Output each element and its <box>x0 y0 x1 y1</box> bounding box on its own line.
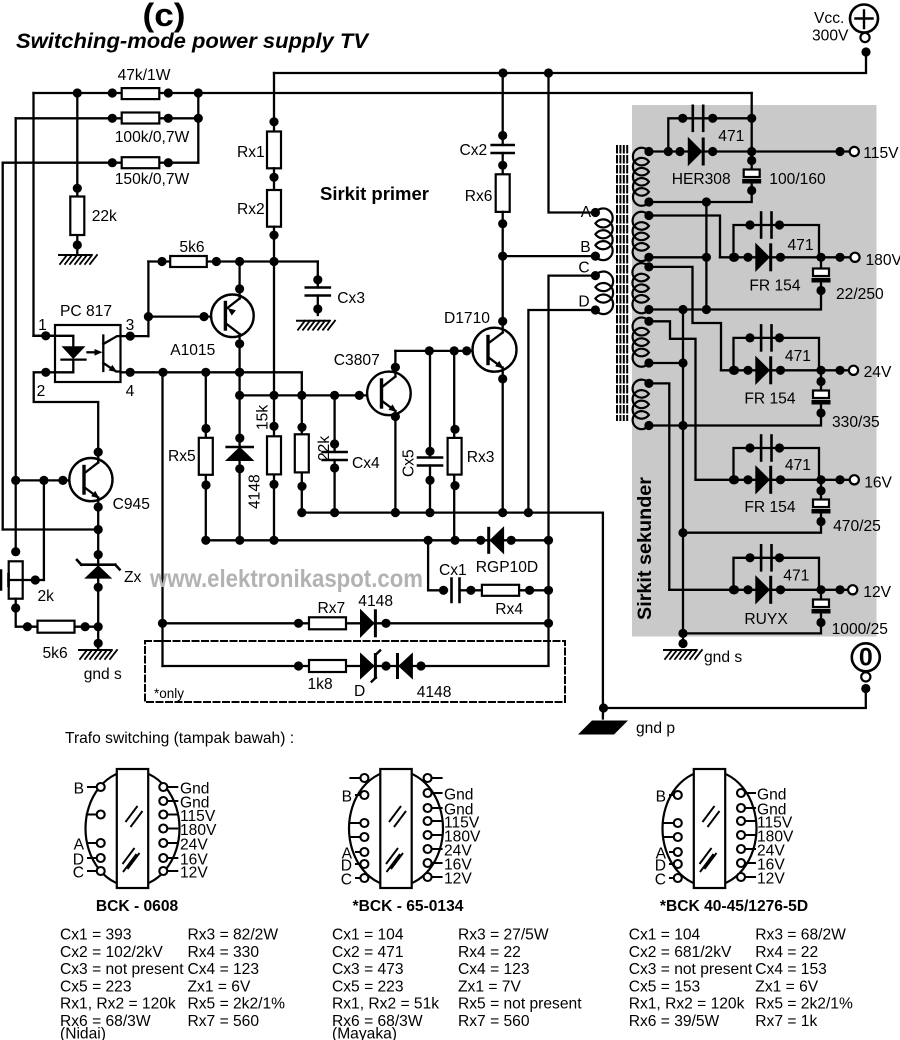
svg-text:B: B <box>74 780 84 797</box>
resistor 150k/0,7W <box>122 157 160 168</box>
capacitor 100/160 <box>744 170 760 178</box>
wire 115V diode row <box>649 150 850 152</box>
diode FR 154 (180V) <box>756 244 770 271</box>
svg-text:Zx: Zx <box>124 569 142 586</box>
svg-text:12V: 12V <box>863 584 891 601</box>
resistor 22k (lower) <box>301 395 303 512</box>
svg-text:Rx7 = 560: Rx7 = 560 <box>188 1013 260 1030</box>
secondary side gray panel <box>632 105 877 637</box>
svg-text:5k6: 5k6 <box>179 239 204 256</box>
capacitor Cx2 <box>502 73 504 174</box>
wire 16V feed from winding <box>649 321 696 480</box>
node W3 bottom row dots <box>644 305 653 314</box>
PC817 internal LED <box>55 336 73 347</box>
svg-text:12V: 12V <box>180 864 208 881</box>
svg-text:24V: 24V <box>864 364 892 381</box>
transformer pinout *BCK 40-45/1276-5D <box>663 769 757 888</box>
svg-text:Cx1 = 104: Cx1 = 104 <box>332 927 404 944</box>
wire ground bus x=683 <box>682 310 684 647</box>
svg-text:FR 154: FR 154 <box>744 391 795 408</box>
svg-text:PC 817: PC 817 <box>60 303 112 320</box>
svg-text:115V: 115V <box>863 145 899 162</box>
svg-text:Rx4 = 22: Rx4 = 22 <box>755 944 818 961</box>
capacitor Cx3 <box>317 262 319 316</box>
svg-text:12V: 12V <box>757 870 785 887</box>
wire 12V feed from winding <box>649 383 669 589</box>
svg-text:470/25: 470/25 <box>833 518 881 535</box>
svg-text:Rx5 = 2k2/1%: Rx5 = 2k2/1% <box>188 996 286 1013</box>
wire 12V diode row <box>669 589 849 591</box>
svg-text:Rx3 = 82/2W: Rx3 = 82/2W <box>188 927 279 944</box>
PC817 pin 3 wire <box>121 335 149 337</box>
svg-text:12V: 12V <box>444 870 472 887</box>
wire 150k row y=163 <box>3 162 199 164</box>
svg-text:(Nidai): (Nidai) <box>60 1026 106 1040</box>
svg-text:gnd s: gnd s <box>704 649 742 666</box>
node W5 bottom row dots <box>644 421 653 430</box>
ground below 22k <box>59 254 91 256</box>
wire return bus x=706.4 <box>705 202 707 310</box>
svg-text:Rx3 = 27/5W: Rx3 = 27/5W <box>458 927 549 944</box>
svg-text:Cx3: Cx3 <box>337 290 365 307</box>
svg-text:Cx5: Cx5 <box>401 449 418 477</box>
wire C3807 collector to D1710 base row <box>394 351 396 377</box>
svg-text:gnd s: gnd s <box>84 666 122 683</box>
resistor Rx1 <box>273 73 275 132</box>
resistor Rx7 <box>309 617 346 629</box>
resistor 2k <box>11 547 20 556</box>
resistor Rx3 <box>453 351 455 540</box>
svg-text:22k: 22k <box>316 436 333 461</box>
svg-text:471: 471 <box>785 457 811 474</box>
wire row B y=395.4 <box>240 394 382 396</box>
svg-text:Rx1: Rx1 <box>237 144 265 161</box>
svg-text:*BCK 40-45/1276-5D: *BCK 40-45/1276-5D <box>660 898 808 915</box>
svg-text:Cx5 = 223: Cx5 = 223 <box>60 978 132 995</box>
capacitor 471 (180V) <box>734 225 820 257</box>
PC817 light arrow <box>88 351 98 353</box>
PC817 pin 4 wire / row A y=372.3 <box>121 372 302 395</box>
transformer secondary winding W4 <box>633 318 649 367</box>
svg-text:Rx2: Rx2 <box>237 201 265 218</box>
terminal 180V <box>850 253 859 262</box>
svg-text:Zx1 = 6V: Zx1 = 6V <box>755 978 818 995</box>
diode 4148 (vertical) <box>238 395 240 540</box>
wire 24V feed from winding <box>649 267 721 370</box>
ground below Cx3 <box>297 320 329 322</box>
wire 5k6 to pin3 junction x=148.4 <box>147 262 149 337</box>
capacitor Cx4 <box>333 395 335 512</box>
svg-text:Zx1 = 6V: Zx1 = 6V <box>188 978 251 995</box>
diode 4148 on Rx7 row <box>361 610 375 637</box>
resistor 5k6 (upper) <box>170 256 207 267</box>
svg-text:C: C <box>341 871 352 888</box>
svg-text:Rx4: Rx4 <box>495 601 523 618</box>
transformer secondary winding W1 <box>633 148 649 206</box>
diode 4148 (reversed) on 1k8 row <box>396 655 399 678</box>
svg-text:150k/0,7W: 150k/0,7W <box>115 171 190 188</box>
svg-text:Rx3: Rx3 <box>467 449 495 466</box>
svg-text:3: 3 <box>126 317 135 334</box>
svg-text:Sirkit sekunder: Sirkit sekunder <box>635 476 656 620</box>
transformer pinout *BCK-65-0134 <box>349 769 443 888</box>
svg-text:*only: *only <box>154 686 184 701</box>
svg-text:300V: 300V <box>812 28 849 45</box>
resistor 47k/1W <box>122 88 160 99</box>
wire D row to bus <box>528 310 595 513</box>
svg-text:Cx3 = 473: Cx3 = 473 <box>332 961 404 978</box>
svg-text:Rx7: Rx7 <box>318 600 346 617</box>
svg-text:471: 471 <box>783 568 809 585</box>
wire left feed x=15.7 down <box>15 118 17 551</box>
ground gnd p (chassis) <box>578 721 628 735</box>
diode FR 154 (16V) <box>756 466 770 493</box>
transformer pinout BCK-0608 <box>86 769 180 888</box>
wire from base row down to edge capacitor <box>43 480 45 580</box>
svg-text:22/250: 22/250 <box>836 286 884 303</box>
svg-text:2: 2 <box>37 383 46 400</box>
transformer secondary winding W5 <box>633 380 649 430</box>
wire left feed x=33.5 to PC817 pin1 <box>34 93 56 336</box>
wire gnd p row to 0 terminal <box>603 689 866 709</box>
svg-text:Rx6 = 39/5W: Rx6 = 39/5W <box>629 1013 720 1030</box>
terminal 0 <box>852 643 880 671</box>
capacitor 471 (stage 1) <box>668 118 751 151</box>
wire A1015 emitter down to row B <box>238 334 240 395</box>
capacitor 471 (12V) <box>734 558 820 590</box>
transformer primary winding A-B <box>595 208 612 260</box>
wire feed from y=93 into stage 1 <box>751 93 753 170</box>
svg-text:B: B <box>580 239 590 256</box>
svg-text:Rx7 = 1k: Rx7 = 1k <box>755 1013 817 1030</box>
PC817 pin 1 wire <box>34 335 56 337</box>
svg-text:Cx1: Cx1 <box>439 562 467 579</box>
diode FR 154 (24V) <box>756 357 770 384</box>
svg-text:Cx1 = 104: Cx1 = 104 <box>629 927 701 944</box>
wire 2k bottom to 5k6 row <box>16 599 99 627</box>
svg-text:Rx7 = 560: Rx7 = 560 <box>458 1013 530 1030</box>
svg-text:RUYX: RUYX <box>744 611 788 628</box>
resistor 5k6 (lower) <box>38 621 75 633</box>
wire C945 collector up <box>97 452 99 462</box>
terminal 115V <box>850 147 859 156</box>
wire B row <box>503 255 596 257</box>
svg-text:5k6: 5k6 <box>43 645 68 662</box>
resistor Rx6 <box>496 174 510 212</box>
terminal Vcc 300V <box>850 5 878 33</box>
resistor 22k <box>76 93 78 255</box>
wire C3807 emitter to bus <box>394 411 396 513</box>
svg-text:100/160: 100/160 <box>769 171 826 188</box>
svg-text:Switching-mode power supply TV: Switching-mode power supply TV <box>16 30 370 53</box>
svg-text:Rx4 = 330: Rx4 = 330 <box>188 944 260 961</box>
resistor 15k <box>273 395 275 540</box>
svg-text:Rx5 = 2k2/1%: Rx5 = 2k2/1% <box>755 996 853 1013</box>
capacitor at left edge <box>9 579 44 581</box>
svg-text:Vcc.: Vcc. <box>814 10 844 27</box>
ground gnd s (secondary) <box>664 649 696 651</box>
svg-text:C: C <box>655 871 666 888</box>
svg-text:Cx2 = 681/2kV: Cx2 = 681/2kV <box>629 944 732 961</box>
svg-text:4148: 4148 <box>417 684 452 701</box>
svg-text:471: 471 <box>788 237 814 254</box>
optocoupler PC817 box <box>55 325 121 382</box>
svg-text:(Mayaka): (Mayaka) <box>332 1026 397 1040</box>
svg-text:Rx1, Rx2 = 51k: Rx1, Rx2 = 51k <box>332 996 439 1013</box>
diode RGP10D <box>487 528 490 552</box>
svg-text:Cx5 = 153: Cx5 = 153 <box>629 978 701 995</box>
wire C945 emitter down to gnd s <box>97 498 99 650</box>
wire W2 bottom row <box>649 256 707 258</box>
svg-text:4148: 4148 <box>247 474 264 509</box>
wire main bus y=512.6 to gnd p <box>302 513 603 719</box>
capacitor electrolytic (180V) <box>820 257 822 268</box>
wire C feed down <box>549 276 596 624</box>
svg-text:100k/0,7W: 100k/0,7W <box>115 129 190 146</box>
svg-text:A: A <box>581 204 592 221</box>
svg-text:Cx3 = not present: Cx3 = not present <box>60 961 184 978</box>
svg-text:47k/1W: 47k/1W <box>118 67 171 84</box>
svg-text:Sirkit primer: Sirkit primer <box>320 183 429 204</box>
wire A1015 base row y=316.6 <box>148 315 225 317</box>
svg-text:0: 0 <box>859 644 873 672</box>
svg-text:4148: 4148 <box>358 593 393 610</box>
wire 100k row y=118 <box>16 117 199 119</box>
transistor C3807 <box>367 372 411 416</box>
wire Rx2 vertical to row B <box>273 262 275 396</box>
svg-text:Cx3 = not present: Cx3 = not present <box>629 961 753 978</box>
resistor 1k8 <box>309 660 346 672</box>
svg-text:D: D <box>354 683 365 700</box>
svg-text:471: 471 <box>785 348 811 365</box>
svg-text:4: 4 <box>126 383 135 400</box>
svg-text:BCK - 0608: BCK - 0608 <box>96 898 179 915</box>
svg-text:Cx4 = 153: Cx4 = 153 <box>755 961 827 978</box>
wire Rx7 row y=623.3 <box>163 622 549 624</box>
zener Zx <box>77 560 120 569</box>
resistor Rx2 <box>273 168 275 190</box>
diode HER308 <box>688 138 702 165</box>
wire W4 bottom row <box>649 362 683 364</box>
dashed box *only <box>145 641 565 702</box>
svg-text:22k: 22k <box>92 208 117 225</box>
svg-text:Cx4 = 123: Cx4 = 123 <box>458 961 530 978</box>
svg-text:(c): (c) <box>143 0 186 33</box>
svg-text:Rx1, Rx2 = 120k: Rx1, Rx2 = 120k <box>60 996 176 1013</box>
svg-text:Rx5: Rx5 <box>168 448 196 465</box>
wire D1710 emitter down to bus <box>502 368 504 513</box>
capacitor 471 (24V) <box>734 338 820 370</box>
diode RUYX (12V) <box>756 576 770 603</box>
svg-text:A1015: A1015 <box>170 342 215 359</box>
resistor 100k/0,7W <box>122 113 160 124</box>
capacitor Cx5 <box>429 351 431 513</box>
wire 180V feed from winding <box>649 216 720 258</box>
capacitor electrolytic (12V) <box>820 590 822 600</box>
svg-text:180V: 180V <box>866 252 900 269</box>
wire 1k8 row y=666 <box>163 623 549 666</box>
transformer core <box>616 146 618 420</box>
svg-text:D1710: D1710 <box>444 310 490 327</box>
svg-text:RGP10D: RGP10D <box>476 559 538 576</box>
wire 180V diode row <box>720 256 850 258</box>
svg-text:FR 154: FR 154 <box>744 499 795 516</box>
svg-text:Zx1 = 7V: Zx1 = 7V <box>458 978 521 995</box>
wire D1710 base row y=350.9 <box>395 350 488 352</box>
svg-text:Trafo switching (tampak bawah): Trafo switching (tampak bawah) : <box>65 730 294 747</box>
svg-text:*BCK - 65-0134: *BCK - 65-0134 <box>353 898 464 915</box>
svg-text:Cx4: Cx4 <box>352 455 380 472</box>
svg-text:471: 471 <box>718 128 744 145</box>
svg-text:1000/25: 1000/25 <box>832 621 889 638</box>
wire Vcc rail y=73 <box>274 56 866 73</box>
zener diode D <box>361 654 375 679</box>
svg-text:Cx5 = 223: Cx5 = 223 <box>332 978 404 995</box>
svg-text:Rx6: Rx6 <box>465 188 493 205</box>
wire C945 base row y=480.4 <box>16 479 84 481</box>
svg-text:16V: 16V <box>864 475 892 492</box>
transformer secondary winding W3 <box>632 263 649 313</box>
transformer secondary winding W2 <box>633 212 649 261</box>
svg-text:C: C <box>73 864 84 881</box>
resistor Rx4 <box>482 585 519 596</box>
wire 5k6 row y=261.5 <box>148 260 317 262</box>
svg-text:Cx4 = 123: Cx4 = 123 <box>188 961 260 978</box>
svg-text:B: B <box>656 788 666 805</box>
wire x=162.5 from row A down <box>161 372 163 666</box>
wire RGP10D row y=540 <box>206 539 549 541</box>
svg-text:330/35: 330/35 <box>832 414 880 431</box>
wire A1015 collector up to 5k6 row <box>238 262 240 299</box>
svg-text:2k: 2k <box>38 588 55 605</box>
svg-text:1k8: 1k8 <box>308 676 333 693</box>
svg-text:Cx2 = 471: Cx2 = 471 <box>332 944 404 961</box>
transistor A1015 <box>211 295 254 338</box>
svg-text:gnd p: gnd p <box>636 720 675 737</box>
wire row y=529.5 to C945 emitter <box>3 528 99 530</box>
svg-text:Rx3 = 68/2W: Rx3 = 68/2W <box>755 927 846 944</box>
svg-text:FR 154: FR 154 <box>749 278 800 295</box>
svg-text:C: C <box>578 260 589 277</box>
svg-text:D: D <box>578 294 589 311</box>
capacitor electrolytic (24V) <box>820 370 822 390</box>
PC817 pin 2 wire to C945 <box>34 372 99 452</box>
PC817 phototransistor <box>102 336 104 372</box>
wire 24V diode row <box>721 369 850 371</box>
svg-text:1: 1 <box>38 317 47 334</box>
capacitor Cx1 <box>428 540 447 590</box>
svg-text:C3807: C3807 <box>334 352 380 369</box>
wire A feed <box>549 73 596 213</box>
svg-text:www.elektronikaspot.com: www.elektronikaspot.com <box>149 565 423 593</box>
wire D1710 collector up <box>502 256 504 332</box>
svg-text:Rx4 = 22: Rx4 = 22 <box>458 944 521 961</box>
transistor C945 <box>69 458 112 501</box>
svg-text:Rx1, Rx2 = 120k: Rx1, Rx2 = 120k <box>629 996 745 1013</box>
wire 16V diode row <box>696 479 850 481</box>
wire left feed x=2.7 down to C945 emitter row <box>2 163 4 530</box>
capacitor electrolytic (16V) <box>820 480 822 500</box>
terminal 16V <box>850 475 859 484</box>
svg-text:Cx2 = 102/2kV: Cx2 = 102/2kV <box>60 944 163 961</box>
terminal 12V <box>848 585 857 594</box>
ground gnd s (left) <box>79 649 111 651</box>
resistor Rx5 <box>205 372 207 540</box>
wire startup rail y=93 to secondary <box>34 92 752 94</box>
svg-text:Cx2: Cx2 <box>460 142 488 159</box>
svg-text:Cx1 = 393: Cx1 = 393 <box>60 927 132 944</box>
capacitor 471 (16V) <box>734 448 820 480</box>
svg-text:HER308: HER308 <box>672 171 731 188</box>
svg-text:C945: C945 <box>113 496 151 513</box>
svg-text:B: B <box>342 788 352 805</box>
svg-text:15k: 15k <box>255 405 272 430</box>
transformer primary winding C-D <box>595 272 613 315</box>
transistor D1710 <box>473 328 517 372</box>
wire right junction vertical x=198 <box>197 93 199 163</box>
svg-text:Rx5 = not present: Rx5 = not present <box>458 996 582 1013</box>
terminal 24V <box>849 366 858 375</box>
